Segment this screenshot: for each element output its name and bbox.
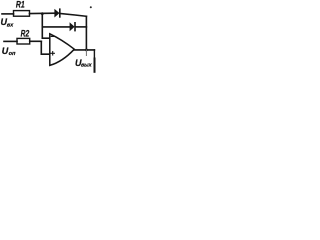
op-amp plus marking — [51, 52, 54, 55]
resistor R1 — [14, 11, 30, 17]
svg-text:вых: вых — [81, 62, 92, 68]
svg-text:оп: оп — [9, 51, 16, 57]
diode VD2 — [70, 23, 75, 31]
wire input Uop — [4, 40, 17, 42]
wire node to diode VD2 — [42, 26, 70, 28]
wire corner down to plus input — [41, 41, 49, 54]
op-amp U1 triangle — [50, 34, 75, 66]
node junction output — [85, 49, 88, 52]
svg-text:вх: вх — [7, 23, 14, 29]
wire output vertical terminal — [93, 50, 95, 59]
wire VD2 to right vertical — [76, 26, 87, 28]
svg-text:R1: R1 — [16, 0, 25, 10]
wire stub below output junction — [85, 50, 87, 56]
wire input Uvx — [2, 13, 14, 15]
wire VD1 to right corner — [61, 14, 87, 17]
diode VD1 — [55, 9, 60, 17]
resistor R2 — [17, 38, 30, 44]
speck top right — [90, 6, 92, 8]
wire output — [74, 49, 94, 51]
wire to inverting input — [42, 37, 49, 39]
wire R2 to corner — [30, 40, 42, 42]
op-amp minus marking — [51, 35, 54, 37]
output terminal bar — [94, 59, 96, 72]
svg-text:R2: R2 — [21, 28, 30, 38]
wire node vertical — [41, 14, 43, 39]
wire right vertical feedback — [85, 16, 87, 50]
node junction A — [41, 12, 44, 15]
wire R1 to diode VD1 — [30, 12, 55, 14]
